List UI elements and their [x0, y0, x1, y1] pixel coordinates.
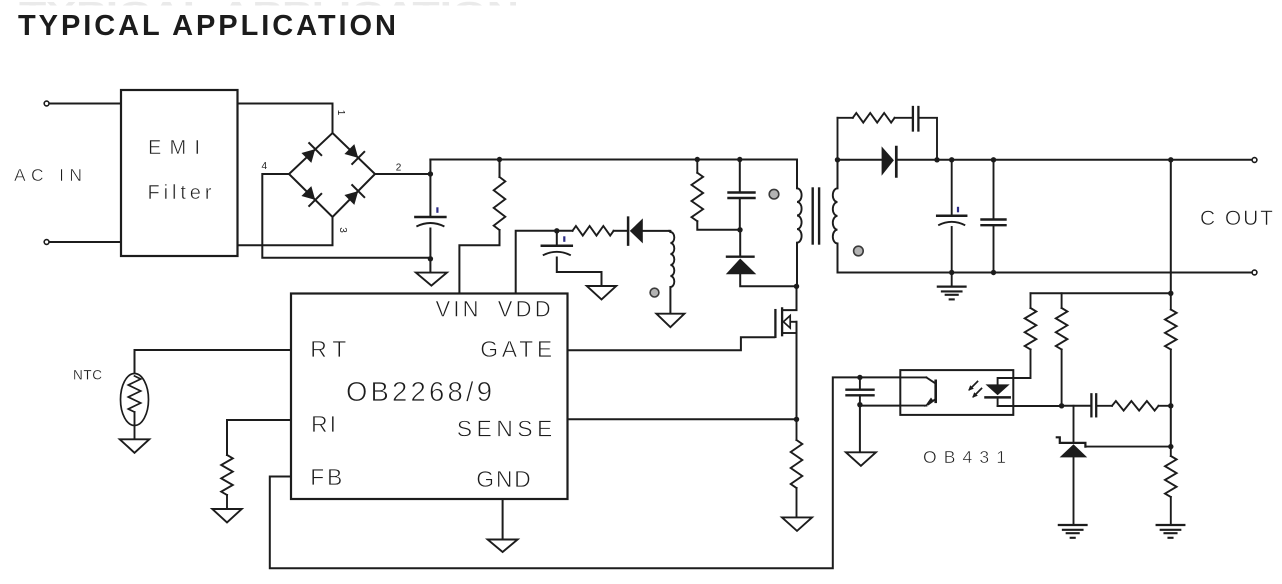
svg-text:FB: FB [310, 464, 342, 490]
node primary-drain junction [794, 284, 799, 289]
pin label GND [476, 466, 531, 492]
snubber RC secondary [838, 107, 938, 160]
ground VDD cap [587, 286, 617, 300]
bridge diode D4 (bottom-right edge) [344, 185, 364, 205]
transistor MOSFET gate bar [774, 310, 776, 337]
bridge diamond wires [289, 133, 375, 217]
bridge diode D3 (left-bottom edge) [301, 186, 321, 206]
wire LED cathode to comp cap [1013, 405, 1090, 407]
node clamp junction [737, 227, 742, 232]
node output cap2 top [991, 157, 996, 162]
svg-text:SENSE: SENSE [457, 416, 553, 442]
capacitor output electrolytic [937, 160, 966, 273]
wire EMI top output to bridge pin 1 [238, 104, 333, 134]
pin 2 label [396, 162, 402, 173]
wire bulk cap branch [429, 160, 431, 217]
wire GND pin [502, 499, 504, 540]
resistor LED bias [1013, 293, 1036, 378]
svg-text:C OUT: C OUT [1200, 207, 1273, 230]
node startup resistor top [497, 157, 502, 162]
EMI filter box [121, 90, 238, 256]
polarity dot secondary [854, 246, 864, 256]
label OB2268/9 [346, 376, 492, 407]
node LED cathode junction [1059, 403, 1064, 408]
wire primary bottom [796, 243, 798, 287]
svg-text:NTC: NTC [73, 368, 102, 383]
polarity mark output cap [957, 207, 959, 213]
ground aux winding [656, 314, 684, 328]
label OB431 [923, 447, 1006, 467]
node output cap1 bottom [949, 270, 954, 275]
ground divider earth [1157, 525, 1185, 538]
transistor MOSFET channel bar [781, 308, 783, 335]
ground RI resistor [212, 509, 242, 523]
resistor RI [221, 455, 233, 509]
pin label FB [310, 464, 342, 490]
wire VDD cap stub [556, 231, 558, 245]
pin 1 label (rotated) [335, 110, 346, 116]
wire collector to opto [860, 376, 900, 378]
bridge diode D2 (top-right edge) [344, 144, 364, 164]
capacitor output ceramic [982, 160, 1006, 273]
wire bridge pin 2 to bulk node [375, 173, 430, 175]
resistor divider upper [1165, 293, 1177, 406]
pin label RT [310, 336, 346, 362]
wire AC live to EMI filter [50, 103, 122, 105]
op-amp U1 OB2268/9 box [291, 294, 568, 500]
label NTC [73, 368, 102, 383]
wire gate lead [568, 337, 775, 350]
wire aux winding to ground [669, 287, 671, 314]
wire EMI bottom output to bridge pin 3 [238, 217, 333, 245]
label C OUT [1200, 207, 1273, 230]
wire secondary top [837, 160, 839, 189]
wire clamp to diode [739, 230, 741, 256]
wire MOSFET source down [796, 322, 798, 420]
transistor MOSFET drain tap [783, 286, 797, 310]
resistor sense [791, 419, 803, 517]
ground NTC [120, 439, 150, 453]
pin 3 label (rotated) [337, 227, 348, 233]
transistor MOSFET body arrow [783, 316, 796, 328]
node bulk cap top junction [428, 171, 433, 176]
capacitor compensation [1091, 394, 1096, 416]
wire AC neutral to EMI filter [50, 241, 122, 243]
winding primary [797, 188, 802, 242]
svg-text:3: 3 [337, 227, 348, 233]
svg-text:VIN: VIN [436, 297, 479, 322]
ground bulk cap [416, 273, 447, 286]
node opto emitter [857, 402, 862, 407]
node output branch top [1168, 157, 1173, 162]
node sense junction [794, 417, 799, 422]
svg-text:AC IN: AC IN [14, 165, 82, 185]
terminal output plus [1252, 158, 1257, 163]
svg-text:4: 4 [262, 161, 268, 172]
node bulk cap bottom [428, 256, 433, 261]
node output cap2 bottom [991, 270, 996, 275]
pin label VIN [436, 297, 479, 322]
diode output rectifier [882, 146, 937, 176]
node snubber junction [934, 157, 939, 162]
node VDD [554, 228, 559, 233]
thermistor NTC [121, 374, 149, 440]
terminal AC neutral [44, 240, 49, 245]
wire divider feed line [1031, 292, 1171, 294]
optocoupler light arrows [968, 382, 981, 398]
svg-text:1: 1 [335, 110, 346, 116]
capacitor clamp [729, 193, 755, 199]
label Filter [148, 182, 212, 204]
node secondary top [835, 157, 840, 162]
wire secondary bottom [838, 244, 1255, 273]
wire divider mid [1170, 406, 1172, 447]
transformer core [813, 189, 819, 244]
svg-text:VDD: VDD [498, 297, 551, 322]
wire output rail [937, 159, 1254, 161]
ground IC GND [488, 540, 518, 553]
pin label GATE [480, 336, 552, 362]
resistor clamp [692, 160, 740, 230]
resistor divider lower [1165, 447, 1177, 525]
wire clamp cap stub [739, 160, 741, 192]
resistor compensation [1098, 401, 1171, 411]
wire bridge pin 4 to DC return [262, 174, 430, 258]
terminal output minus [1252, 270, 1257, 275]
wire VDD cap to ground [557, 258, 602, 287]
label AC IN [14, 165, 82, 185]
node opto collector [857, 375, 862, 380]
wire output sense branch [1170, 160, 1172, 293]
wire secondary to diode [838, 159, 882, 161]
ground TL431 earth [1059, 525, 1087, 538]
winding auxiliary [669, 231, 674, 287]
svg-text:TYPICAL APPLICATION: TYPICAL APPLICATION [18, 10, 396, 42]
bridge diode D1 (left-top edge) [301, 143, 321, 163]
pin label VDD [498, 297, 551, 322]
ghost echo of title (scan artifact) [19, 0, 519, 29]
capacitor FB compensation [847, 377, 874, 404]
shunt regulator OB431 (zener) [1057, 406, 1171, 525]
node clamp cap top [737, 157, 742, 162]
optocoupler box [900, 370, 1013, 415]
wire primary top [796, 160, 798, 189]
ground secondary earth [938, 273, 966, 300]
wire FB loop [270, 377, 860, 568]
wire RT to NTC [135, 350, 292, 374]
title TYPICAL APPLICATION [18, 10, 396, 42]
optocoupler phototransistor [900, 377, 935, 407]
resistor VDD series [557, 226, 627, 236]
capacitor bulk electrolytic [415, 217, 445, 227]
wire emitter to ground [859, 405, 861, 453]
node divider feed [1168, 291, 1173, 296]
diode clamp blocking [726, 257, 797, 287]
node TL431 cathode junction [1168, 444, 1173, 449]
resistor startup [494, 177, 506, 230]
winding secondary [833, 188, 838, 243]
wire HV rail [430, 159, 797, 161]
ground opto emitter [846, 452, 876, 466]
wire bulk gnd stem [429, 259, 431, 273]
pin label RI [311, 411, 336, 437]
wire clamp cap bottom [739, 198, 741, 230]
wire RI [227, 420, 291, 455]
polarity mark bulk cap [436, 207, 438, 213]
wire SENSE [568, 418, 797, 420]
terminal AC live [44, 101, 49, 106]
node clamp resistor top [695, 157, 700, 162]
node output cap1 top [949, 157, 954, 162]
wire bulk cap to return [429, 229, 431, 259]
ground sense resistor [782, 517, 812, 531]
wire startup resistor to VIN [459, 230, 499, 294]
label EMI [148, 137, 200, 159]
pin 4 label [262, 161, 268, 172]
svg-text:GND: GND [476, 466, 531, 492]
diode VDD rectifier [628, 218, 669, 245]
wire VDD pin up [516, 231, 557, 294]
polarity dot primary [769, 189, 779, 199]
resistor opto pullup [1056, 293, 1068, 406]
node comp junction [1168, 403, 1173, 408]
polarity mark VDD cap [563, 236, 565, 242]
optocoupler LED [986, 378, 1014, 406]
wire startup stub [499, 160, 501, 178]
polarity dot aux winding [650, 288, 659, 297]
wire emitter to opto [860, 405, 900, 407]
pin label SENSE [457, 416, 553, 442]
svg-text:2: 2 [396, 162, 402, 173]
svg-text:RI: RI [311, 411, 336, 437]
capacitor VDD electrolytic [542, 246, 572, 256]
transistor MOSFET source tap [783, 332, 797, 334]
